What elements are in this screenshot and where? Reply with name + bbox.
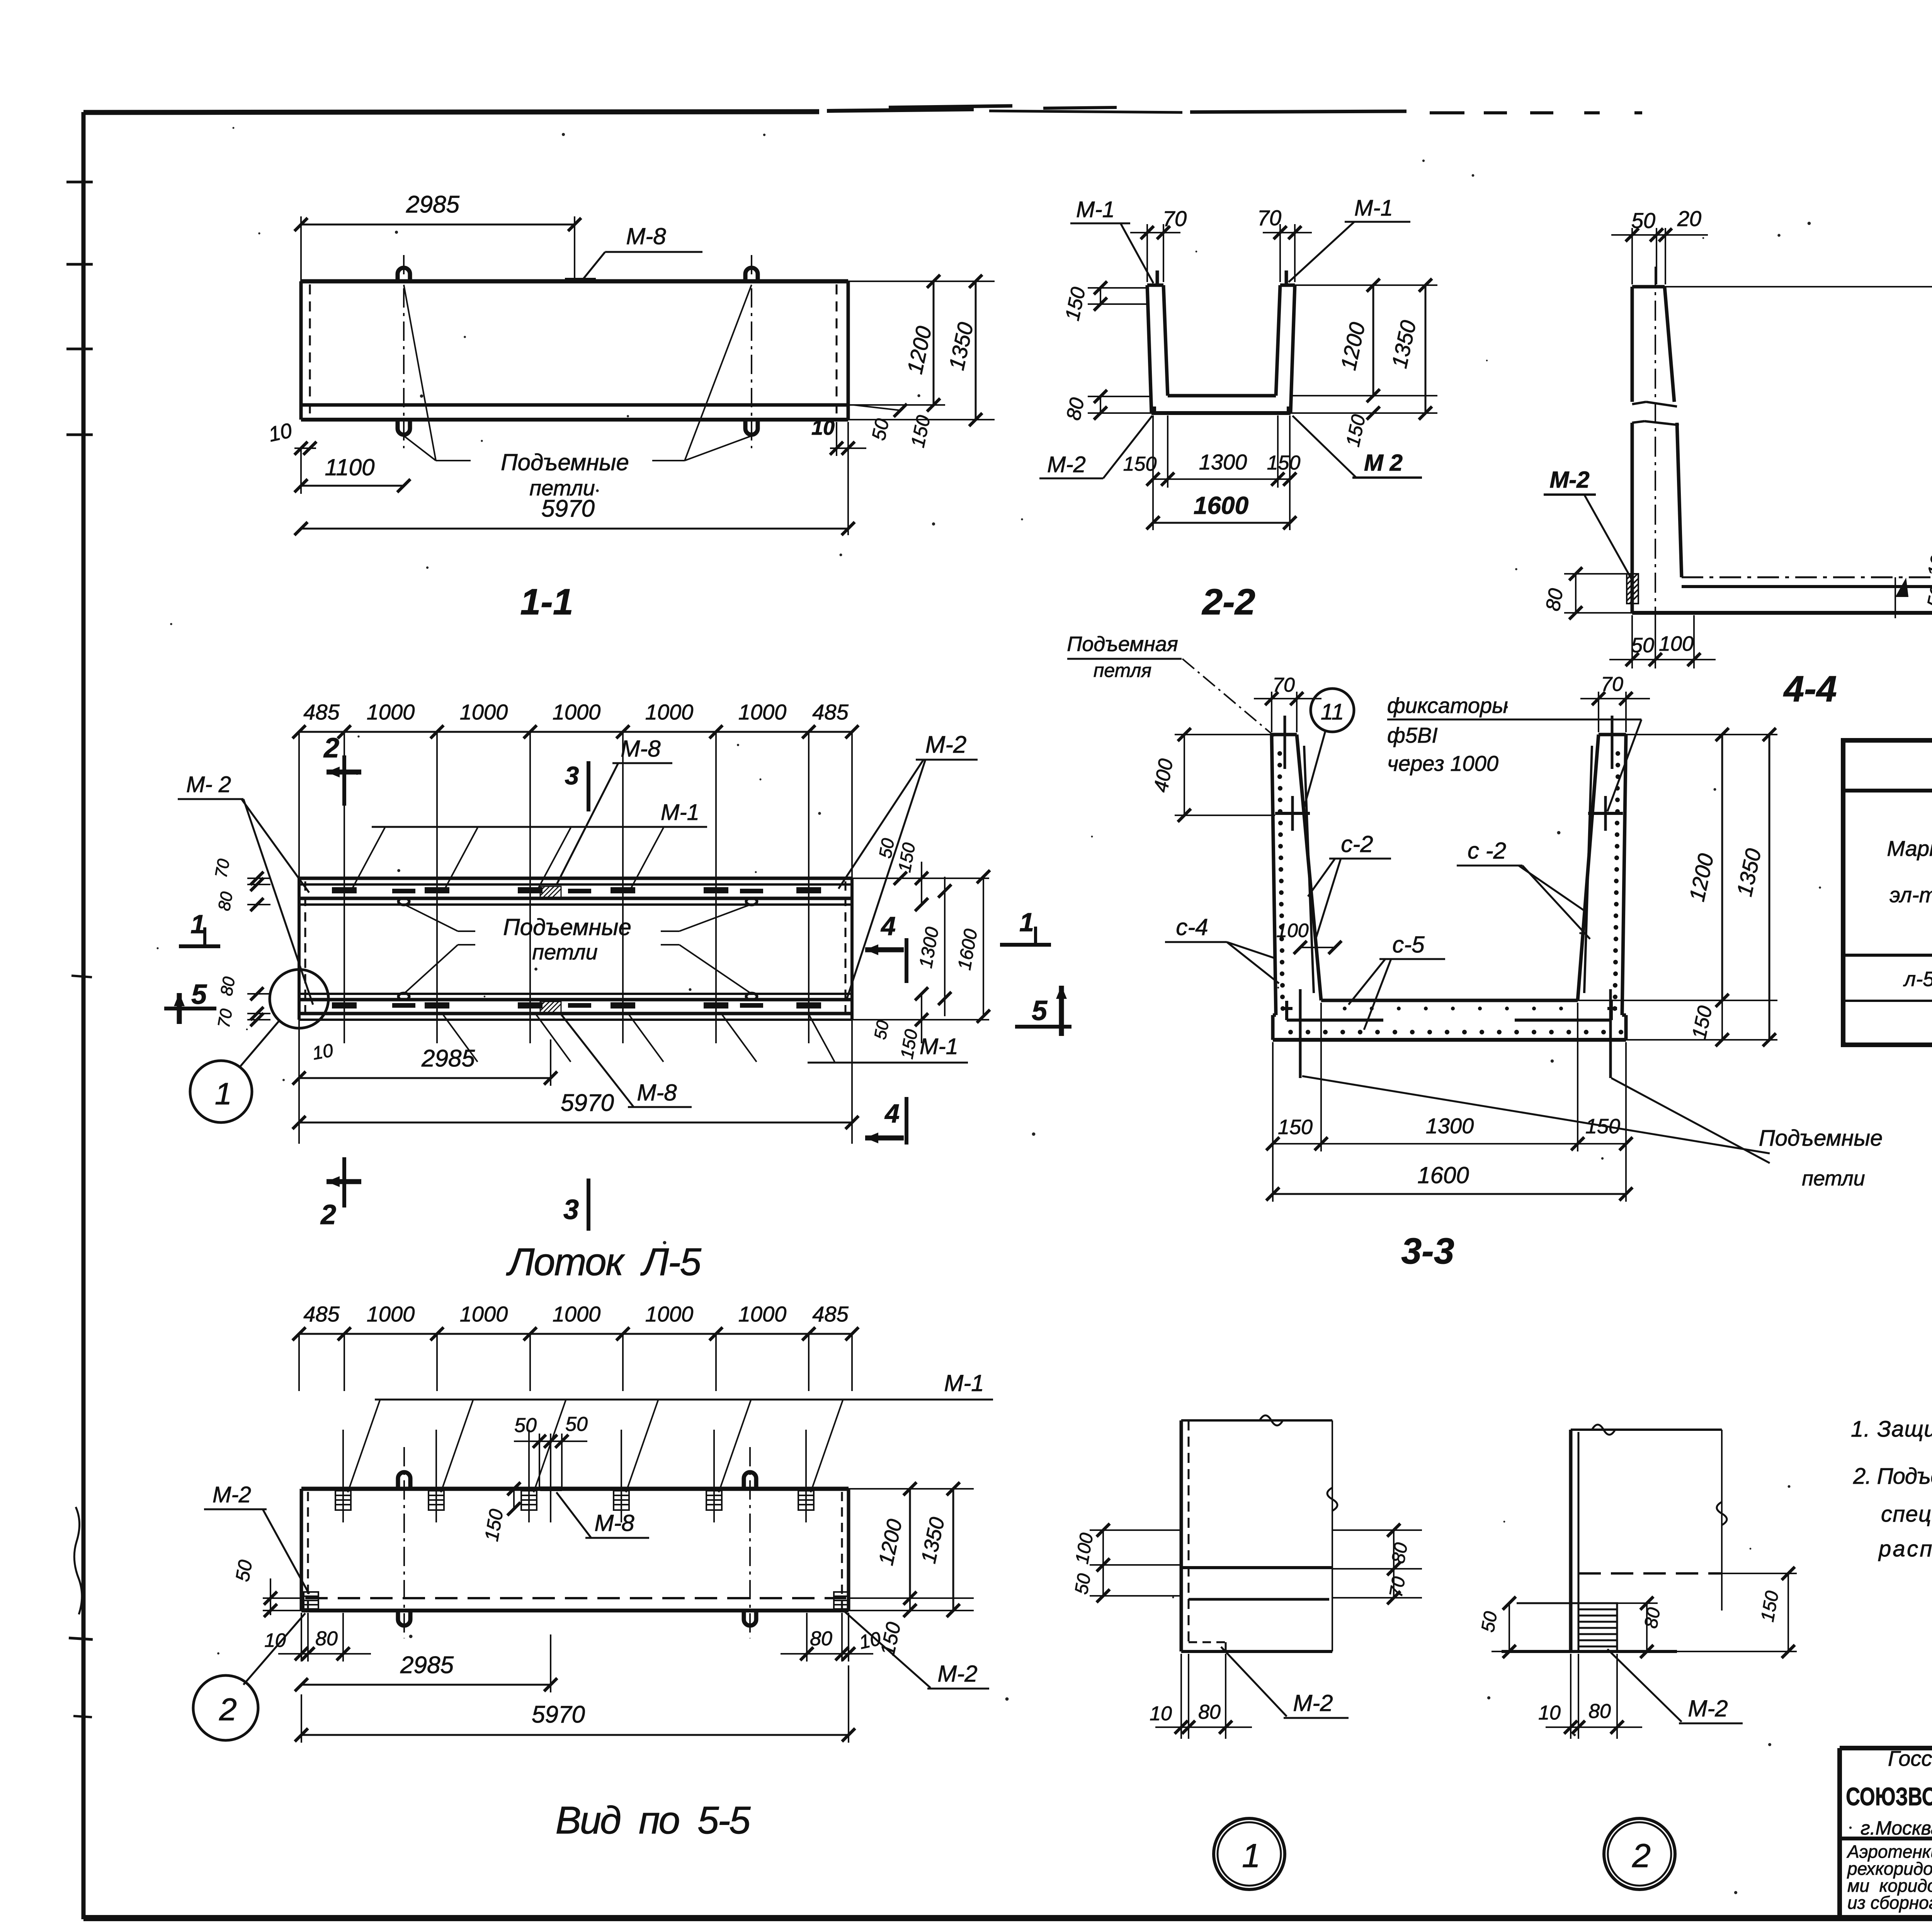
svg-text:485: 485 <box>812 1302 849 1326</box>
svg-text:1000: 1000 <box>367 1302 415 1326</box>
svg-text:150: 150 <box>1267 452 1301 474</box>
svg-text:1000: 1000 <box>738 700 787 724</box>
svg-text:1-1: 1-1 <box>520 582 573 622</box>
svg-text:с-5: с-5 <box>1392 932 1425 957</box>
svg-text:Подъемные: Подъемные <box>503 914 631 940</box>
svg-text:1350: 1350 <box>1387 318 1421 370</box>
svg-text:М-2: М-2 <box>1293 1690 1333 1716</box>
svg-text:70: 70 <box>211 857 233 879</box>
svg-text:150: 150 <box>1757 1589 1783 1623</box>
svg-text:г.Москва: г.Москва <box>1861 1817 1932 1839</box>
svg-text:1100: 1100 <box>325 454 374 480</box>
svg-text:10: 10 <box>267 419 294 446</box>
svg-text:1000: 1000 <box>645 1302 694 1326</box>
svg-text:1000: 1000 <box>553 700 601 724</box>
svg-text:1300: 1300 <box>915 925 943 970</box>
svg-text:5: 5 <box>191 979 207 1010</box>
svg-text:петли: петли <box>1802 1167 1865 1190</box>
svg-text:80: 80 <box>1198 1701 1221 1723</box>
svg-text:10: 10 <box>1150 1702 1172 1725</box>
svg-text:М-1: М-1 <box>1354 196 1393 221</box>
svg-text:петли: петли <box>532 940 597 964</box>
svg-text:150: 150 <box>1688 1004 1717 1041</box>
svg-text:4: 4 <box>880 912 896 941</box>
svg-text:150: 150 <box>1123 453 1157 475</box>
svg-text:2. Подъем лотка за верхние: 2. Подъем лотка за верхние петли осущест… <box>1853 1464 1932 1489</box>
svg-text:М-2: М-2 <box>1549 467 1589 493</box>
svg-text:1: 1 <box>1242 1837 1260 1874</box>
svg-text:70: 70 <box>1163 206 1187 231</box>
svg-text:80: 80 <box>1062 396 1089 422</box>
svg-text:3-3: 3-3 <box>1401 1231 1454 1272</box>
svg-text:100: 100 <box>1923 543 1932 579</box>
svg-text:50: 50 <box>231 1558 257 1583</box>
svg-text:3: 3 <box>565 761 579 790</box>
svg-text:11: 11 <box>1321 699 1344 724</box>
svg-text:150: 150 <box>1061 285 1090 323</box>
svg-text:с-4: с-4 <box>1176 914 1208 940</box>
svg-text:л-5: л-5 <box>1903 968 1932 991</box>
svg-text:50: 50 <box>1478 1610 1502 1634</box>
svg-text:1000: 1000 <box>367 700 415 724</box>
svg-text:М-1: М-1 <box>944 1370 984 1396</box>
svg-text:70: 70 <box>214 1007 236 1029</box>
svg-text:1200: 1200 <box>1336 320 1370 372</box>
svg-text:2: 2 <box>320 1199 336 1230</box>
svg-text:М-2: М-2 <box>1047 452 1086 477</box>
svg-text:10: 10 <box>264 1629 286 1651</box>
svg-text:150: 150 <box>480 1507 507 1543</box>
svg-text:80: 80 <box>1588 1700 1611 1723</box>
svg-text:М-1: М-1 <box>920 1034 958 1059</box>
svg-text:50: 50 <box>565 1413 588 1435</box>
svg-text:1350: 1350 <box>1732 846 1766 898</box>
svg-text:150: 150 <box>876 1620 905 1658</box>
svg-text:1000: 1000 <box>645 700 694 724</box>
svg-text:Подъемные: Подъемные <box>501 449 629 475</box>
svg-text:10: 10 <box>311 1040 335 1064</box>
svg-text:70: 70 <box>1257 206 1281 230</box>
svg-text:150: 150 <box>1342 413 1369 449</box>
svg-text:50: 50 <box>871 1019 893 1041</box>
svg-text:80: 80 <box>214 890 236 912</box>
svg-text:М-8: М-8 <box>594 1510 634 1536</box>
svg-text:2: 2 <box>323 733 339 764</box>
svg-text:М-1: М-1 <box>1076 197 1115 222</box>
svg-text:1200: 1200 <box>1930 408 1932 460</box>
svg-text:ф5ВI: ф5ВI <box>1387 723 1438 747</box>
svg-text:400: 400 <box>1150 757 1177 794</box>
svg-text:распора на стенки лотка.: распора на стенки лотка. <box>1878 1536 1932 1561</box>
svg-text:80: 80 <box>1388 1541 1412 1565</box>
svg-text:5: 5 <box>1032 995 1048 1026</box>
svg-text:с -2: с -2 <box>1468 838 1506 864</box>
svg-text:70: 70 <box>1601 673 1623 696</box>
svg-text:80: 80 <box>1542 587 1568 612</box>
svg-text:1350: 1350 <box>944 320 978 372</box>
svg-text:10: 10 <box>1538 1702 1561 1724</box>
svg-text:через 1000: через 1000 <box>1387 751 1498 776</box>
svg-text:1000: 1000 <box>460 1302 508 1326</box>
svg-text:М-2: М-2 <box>937 1661 977 1687</box>
svg-text:2985: 2985 <box>400 1652 454 1679</box>
svg-text:2-2: 2-2 <box>1201 582 1255 622</box>
svg-text:50: 50 <box>1631 634 1654 657</box>
svg-text:Марка: Марка <box>1887 836 1932 861</box>
svg-text:70: 70 <box>1272 674 1295 696</box>
svg-text:М-2: М-2 <box>925 731 967 758</box>
svg-text:150: 150 <box>896 1028 922 1061</box>
svg-text:М-8: М-8 <box>626 223 666 249</box>
svg-text:1000: 1000 <box>460 700 508 724</box>
svg-text:100: 100 <box>1072 1531 1097 1565</box>
svg-text:фиксаторы: фиксаторы <box>1387 693 1508 718</box>
svg-text:М-8: М-8 <box>621 736 661 762</box>
svg-text:20: 20 <box>1677 206 1701 231</box>
svg-text:485: 485 <box>812 700 849 724</box>
svg-text:5970: 5970 <box>532 1701 585 1728</box>
svg-text:1200: 1200 <box>902 324 936 376</box>
svg-text:1: 1 <box>1019 908 1034 937</box>
svg-text:2985: 2985 <box>421 1045 475 1072</box>
svg-text:485: 485 <box>303 1302 340 1326</box>
svg-text:М 2: М 2 <box>1364 450 1403 476</box>
svg-text:80: 80 <box>1641 1606 1665 1630</box>
svg-text:1600: 1600 <box>954 927 981 972</box>
svg-text:2: 2 <box>219 1692 237 1727</box>
svg-text:М-1: М-1 <box>661 800 699 825</box>
svg-text:Лоток Л-5: Лоток Л-5 <box>506 1240 701 1284</box>
svg-text:с-2: с-2 <box>1341 831 1373 857</box>
svg-text:1350: 1350 <box>917 1515 949 1565</box>
svg-text:2985: 2985 <box>406 191 459 218</box>
svg-text:50: 50 <box>1071 1572 1095 1596</box>
svg-text:петли: петли <box>529 476 595 500</box>
svg-text:50: 50 <box>514 1414 537 1437</box>
svg-text:1: 1 <box>215 1077 232 1111</box>
svg-text:М-8: М-8 <box>637 1080 677 1105</box>
svg-text:1000: 1000 <box>553 1302 601 1326</box>
svg-text:485: 485 <box>303 700 340 724</box>
svg-text:Подъемная: Подъемная <box>1067 633 1178 656</box>
svg-text:1200: 1200 <box>1684 851 1718 903</box>
svg-text:150: 150 <box>906 413 934 449</box>
svg-text:1000: 1000 <box>738 1302 787 1326</box>
svg-text:1. Защитный слой бетона -: 1. Защитный слой бетона - 20мм. <box>1851 1417 1932 1442</box>
svg-text:4-4: 4-4 <box>1783 668 1837 709</box>
svg-text:2: 2 <box>1632 1837 1651 1874</box>
svg-text:Госстрой СССР: Госстрой СССР <box>1888 1746 1932 1770</box>
svg-text:150: 150 <box>1278 1116 1313 1139</box>
svg-text:10: 10 <box>811 416 835 439</box>
svg-text:эл-та: эл-та <box>1889 883 1932 907</box>
svg-text:1600: 1600 <box>1194 492 1248 519</box>
svg-text:М- 2: М- 2 <box>186 772 231 797</box>
svg-text:100: 100 <box>1659 632 1694 655</box>
svg-text:1: 1 <box>190 910 205 939</box>
svg-text:1300: 1300 <box>1426 1114 1474 1138</box>
svg-text:специальной траверсой, не: специальной траверсой, не допуская перед… <box>1881 1502 1932 1527</box>
svg-text:1300: 1300 <box>1199 450 1247 474</box>
svg-text:50: 50 <box>1631 208 1655 233</box>
svg-text:3: 3 <box>563 1194 579 1225</box>
svg-text:80: 80 <box>315 1628 338 1650</box>
svg-text:5970: 5970 <box>561 1090 614 1116</box>
svg-text:80: 80 <box>810 1628 832 1650</box>
svg-text:70: 70 <box>1386 1575 1410 1599</box>
svg-text:петля: петля <box>1094 660 1151 681</box>
svg-text:СОЮЗВОДОКАНАЛПРОЕКТ: СОЮЗВОДОКАНАЛПРОЕКТ <box>1846 1782 1932 1811</box>
svg-text:1200: 1200 <box>874 1517 907 1567</box>
svg-text:80: 80 <box>217 975 239 997</box>
svg-text:М-2: М-2 <box>213 1482 251 1507</box>
svg-text:из сборного железобетона: из сборного железобетона <box>1847 1893 1932 1913</box>
svg-text:1600: 1600 <box>1417 1162 1469 1188</box>
svg-text:50: 50 <box>875 837 898 860</box>
svg-text:Вид по 5-5: Вид по 5-5 <box>556 1799 751 1842</box>
svg-text:Подъемные: Подъемные <box>1759 1126 1883 1151</box>
svg-text:50: 50 <box>867 417 893 442</box>
svg-text:М-2: М-2 <box>1688 1696 1728 1721</box>
svg-text:100: 100 <box>1276 920 1309 941</box>
svg-text:4: 4 <box>884 1099 900 1128</box>
